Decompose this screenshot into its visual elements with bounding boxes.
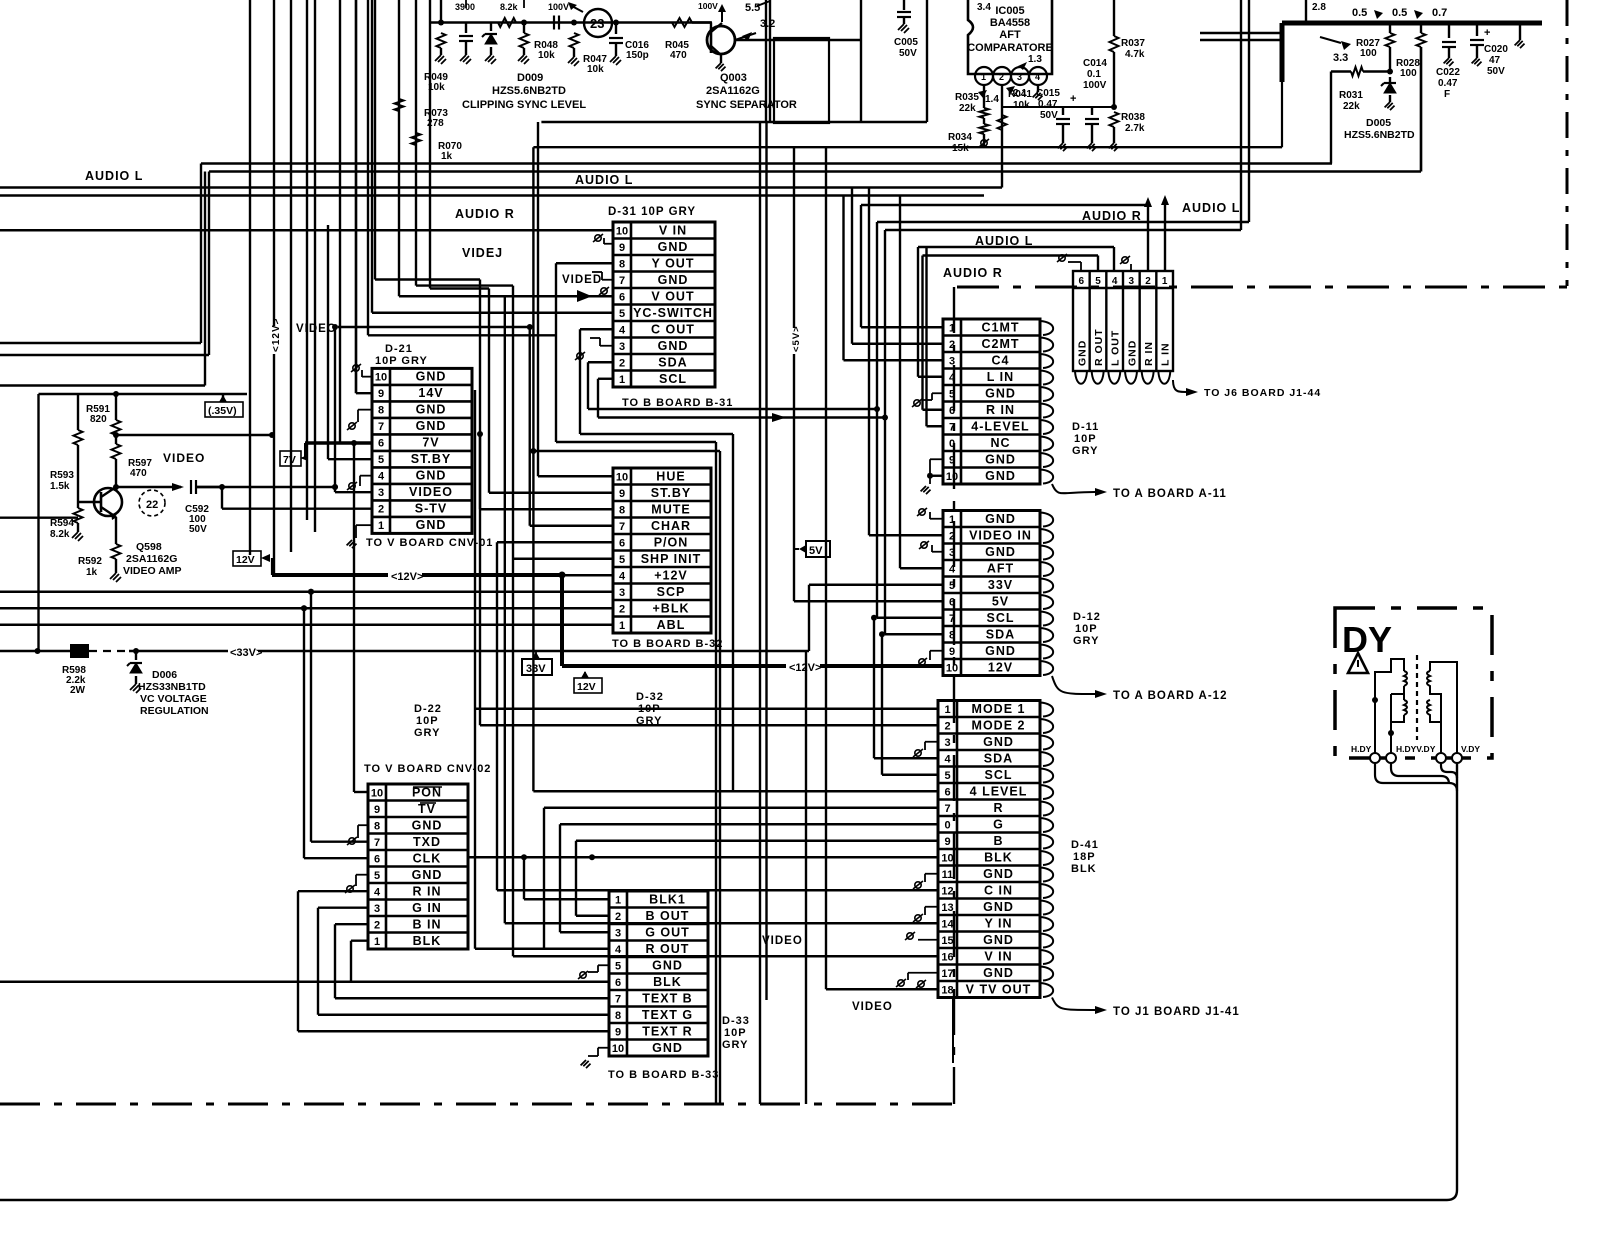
- wire D22 pin3 feed: [318, 907, 368, 909]
- wire corner x201: [200, 164, 202, 344]
- svg-text:6: 6: [949, 405, 955, 417]
- DY terminal 4: [1452, 753, 1462, 763]
- wire vertical x=922.5: [921, 256, 923, 410]
- resistor R070: [412, 133, 421, 145]
- connector D-21 table: [372, 368, 472, 533]
- svg-text:GND: GND: [658, 240, 689, 254]
- svg-text:V OUT: V OUT: [651, 289, 694, 303]
- svg-text:1: 1: [981, 72, 986, 82]
- op-amp IC005 body: [968, 0, 1052, 74]
- svg-text:TEXT G: TEXT G: [642, 1008, 693, 1022]
- wire 33V: [129, 650, 809, 652]
- wire vertical x=529.75: [529, 327, 531, 526]
- svg-text:GND: GND: [416, 419, 447, 433]
- pin IC005-3: [1011, 67, 1029, 85]
- svg-text:TO A BOARD A-12: TO A BOARD A-12: [1113, 690, 1227, 702]
- svg-text:SCL: SCL: [985, 768, 1013, 782]
- svg-text:5V: 5V: [809, 545, 823, 557]
- svg-text:4: 4: [949, 372, 956, 384]
- svg-text:R IN: R IN: [986, 403, 1015, 417]
- svg-text:SCL: SCL: [987, 611, 1015, 625]
- wire D41 pin5 feed: [882, 774, 938, 776]
- svg-text:4: 4: [615, 944, 622, 956]
- wire COUT run: [580, 433, 733, 435]
- wire vertical x=399 from top: [398, 0, 400, 296]
- svg-text:ABL: ABL: [657, 618, 686, 632]
- svg-text:1.3: 1.3: [1028, 54, 1042, 65]
- svg-text:C OUT: C OUT: [651, 322, 695, 336]
- svg-text:0: 0: [944, 819, 950, 831]
- wire D33 pin4 feed: [475, 948, 609, 950]
- resistor R038: [1110, 112, 1119, 127]
- svg-text:D-33: D-33: [722, 1015, 750, 1027]
- svg-text:2: 2: [619, 357, 625, 369]
- resistor R073: [395, 99, 404, 111]
- svg-text:14V: 14V: [418, 386, 443, 400]
- ground D22 pin5: [356, 874, 368, 876]
- svg-text:AUDIO R: AUDIO R: [1082, 209, 1142, 223]
- ground D41 pin17: [908, 972, 938, 974]
- net label 12V under: [574, 678, 602, 693]
- svg-text:13: 13: [941, 902, 953, 914]
- wire vertical x=480: [479, 280, 481, 510]
- svg-text:0.47: 0.47: [1438, 78, 1458, 89]
- svg-text:0: 0: [949, 438, 955, 450]
- capacitor C015: [1062, 107, 1064, 115]
- svg-text:8: 8: [374, 820, 380, 832]
- net label 33V inline: [228, 644, 258, 658]
- svg-text:GRY: GRY: [1073, 635, 1099, 647]
- resistor R035/R034 chain: [983, 85, 985, 108]
- connector D-12 hooks: [1040, 513, 1053, 676]
- svg-text:(.35V): (.35V): [208, 405, 237, 417]
- svg-text:2: 2: [944, 720, 950, 732]
- svg-text:22k: 22k: [1343, 101, 1360, 112]
- svg-text:GND: GND: [983, 735, 1014, 749]
- svg-text:8.2k: 8.2k: [50, 529, 70, 540]
- svg-text:SCL: SCL: [659, 372, 687, 386]
- wire bus2 right end: [1420, 47, 1422, 172]
- svg-text:10: 10: [946, 662, 958, 674]
- wire D41 pin1 feed: [475, 708, 938, 710]
- svg-text:1.5k: 1.5k: [50, 481, 70, 492]
- svg-text:TO V BOARD CNV-02: TO V BOARD CNV-02: [364, 763, 491, 775]
- svg-text:S-TV: S-TV: [415, 502, 447, 516]
- svg-text:278: 278: [427, 118, 444, 129]
- wire bus y222: [877, 221, 1249, 223]
- svg-text:GND: GND: [412, 868, 443, 882]
- svg-text:1k: 1k: [86, 567, 98, 578]
- svg-text:9: 9: [944, 836, 950, 848]
- wire bus222 right end: [1248, 0, 1250, 222]
- svg-text:VC VOLTAGE: VC VOLTAGE: [140, 693, 207, 705]
- svg-text:8: 8: [619, 504, 625, 516]
- svg-text:TXD: TXD: [413, 835, 441, 849]
- arrow AUDIO L up: [1164, 203, 1166, 271]
- svg-text:50V: 50V: [899, 48, 917, 59]
- svg-text:9: 9: [949, 646, 955, 658]
- svg-text:GRY: GRY: [1072, 445, 1098, 457]
- wire vertical x=533.4: [532, 147, 534, 791]
- wire D32 pin7 feed: [530, 525, 613, 527]
- wire D-32 HUE feed: [538, 475, 613, 477]
- svg-text:5: 5: [949, 580, 955, 592]
- wire vertical x=766.5: [765, 122, 767, 1000]
- svg-text:SHP INIT: SHP INIT: [641, 552, 702, 566]
- wire vertical x826: [825, 147, 827, 989]
- svg-text:SYNC SEPARATOR: SYNC SEPARATOR: [696, 99, 797, 111]
- ground B-45 pin6: [1080, 262, 1082, 271]
- wire D11 pin10 feed: [930, 475, 943, 477]
- svg-text:GND: GND: [652, 1041, 683, 1055]
- overline TV: [420, 802, 436, 804]
- svg-text:4: 4: [619, 324, 626, 336]
- ground D31 pin9: [604, 243, 613, 245]
- svg-text:22: 22: [146, 499, 158, 511]
- svg-text:7V: 7V: [422, 436, 439, 450]
- wire D31 pin4 feed: [580, 328, 613, 330]
- svg-text:18P: 18P: [1073, 851, 1096, 863]
- wire D41 pin6 feed: [533, 790, 938, 792]
- svg-text:D-41: D-41: [1071, 839, 1099, 851]
- svg-text:9: 9: [619, 242, 625, 254]
- resistor R037: [1113, 0, 1115, 36]
- svg-text:TV: TV: [418, 802, 436, 816]
- wire pins junction: [1002, 106, 1114, 108]
- svg-text:R IN: R IN: [413, 884, 442, 898]
- svg-text:R IN: R IN: [1143, 341, 1155, 366]
- svg-text:MODE 1: MODE 1: [972, 702, 1026, 716]
- svg-text:Q598: Q598: [136, 541, 162, 553]
- wire D41 pin18 feed: [826, 988, 938, 990]
- svg-text:50V: 50V: [1040, 110, 1058, 121]
- connector D-11 table: [943, 319, 1040, 484]
- DY terminal 1: [1370, 753, 1380, 763]
- svg-text:5: 5: [949, 388, 955, 400]
- svg-text:8.2k: 8.2k: [500, 2, 519, 12]
- wire vertical x=489: [488, 289, 490, 493]
- svg-text:TEXT B: TEXT B: [642, 991, 692, 1005]
- wire VIDEO net: [334, 327, 336, 492]
- wire VIDEO-IN vertical: [868, 188, 870, 536]
- svg-text:GND: GND: [985, 512, 1016, 526]
- svg-text:33V: 33V: [526, 663, 546, 675]
- svg-text:6: 6: [949, 596, 955, 608]
- svg-text:DY: DY: [1342, 619, 1392, 660]
- svg-text:B: B: [993, 834, 1003, 848]
- wire D41 pin16 feed: [513, 955, 938, 957]
- svg-text:TO B BOARD B-31: TO B BOARD B-31: [622, 397, 733, 409]
- wire D32 pin2 feed: [0, 607, 613, 609]
- ground D12 pin9: [930, 650, 943, 652]
- wire D31 pin6 arrow: [399, 295, 613, 297]
- svg-text:4: 4: [619, 570, 626, 582]
- wire D41 pin14 feed: [505, 922, 938, 924]
- svg-text:7: 7: [619, 275, 625, 287]
- wire 5V line: [793, 147, 795, 601]
- wire to A board A-12: [1052, 676, 1095, 694]
- wire D32 pin5 feed: [513, 558, 613, 560]
- svg-text:CLIPPING SYNC LEVEL: CLIPPING SYNC LEVEL: [462, 99, 586, 111]
- connector B-45 hooks: [1075, 371, 1170, 384]
- svg-text:10P: 10P: [1074, 433, 1097, 445]
- component R598: [0, 650, 70, 652]
- svg-text:AUDIO L: AUDIO L: [85, 169, 143, 183]
- svg-text:3.3: 3.3: [1333, 52, 1348, 64]
- wire top node D009: [430, 21, 712, 23]
- svg-text:R034: R034: [948, 132, 972, 143]
- svg-text:2.8: 2.8: [1312, 2, 1326, 13]
- chain line right vertical: [1566, 0, 1569, 286]
- svg-text:HZS5.6NB2TD: HZS5.6NB2TD: [492, 85, 566, 97]
- DY terminal 3: [1436, 753, 1446, 763]
- DY block border: [1335, 608, 1492, 758]
- wire H335 link: [368, 334, 556, 336]
- svg-text:P/ON: P/ON: [654, 535, 689, 549]
- svg-text:GND: GND: [416, 518, 447, 532]
- svg-text:6: 6: [615, 977, 621, 989]
- wire vertical x=416 from top: [415, 0, 417, 286]
- wire D12 pin4 feed: [900, 567, 943, 569]
- connector D-31 table: [613, 222, 715, 387]
- svg-text:5V: 5V: [992, 594, 1009, 608]
- wire to J1 board J1-41: [1052, 998, 1095, 1011]
- svg-text:9: 9: [615, 1026, 621, 1038]
- DY yoke H coil2: [1391, 694, 1407, 722]
- svg-text:3: 3: [619, 587, 625, 599]
- svg-text:4.7k: 4.7k: [1125, 49, 1145, 60]
- connector D-11 hooks: [1040, 321, 1053, 484]
- svg-text:3900: 3900: [455, 2, 475, 12]
- svg-text:ST.BY: ST.BY: [651, 486, 691, 500]
- svg-text:6: 6: [378, 438, 384, 450]
- wire D33 pin1 feed: [524, 898, 609, 900]
- svg-text:+BLK: +BLK: [653, 601, 690, 615]
- wire D11 pin3 feed: [844, 359, 944, 361]
- svg-text:9: 9: [619, 488, 625, 500]
- svg-text:CHAR: CHAR: [651, 519, 691, 533]
- svg-text:VIDEO: VIDEO: [163, 451, 205, 465]
- svg-text:3: 3: [374, 903, 380, 915]
- svg-text:4: 4: [1035, 72, 1040, 82]
- svg-text:1: 1: [1162, 276, 1168, 287]
- svg-text:D-12: D-12: [1073, 611, 1101, 623]
- svg-text:C IN: C IN: [984, 883, 1013, 897]
- wire vertical x=315 from top: [314, 0, 316, 532]
- svg-text:4-LEVEL: 4-LEVEL: [971, 419, 1029, 433]
- svg-text:33V: 33V: [988, 578, 1013, 592]
- zener D006: [135, 651, 137, 660]
- svg-text:GND: GND: [985, 452, 1016, 466]
- svg-text:V IN: V IN: [659, 223, 687, 237]
- wire corner x209: [208, 172, 210, 356]
- net label (.35V): [222, 394, 224, 402]
- svg-text:5: 5: [615, 960, 621, 972]
- svg-text:3: 3: [1017, 72, 1022, 82]
- wire D22 pin4 feed: [298, 890, 368, 892]
- wire vertical x=372 from top: [371, 0, 373, 313]
- ground far right: [1519, 23, 1521, 40]
- capacitor C010: [465, 23, 467, 34]
- svg-text:D009: D009: [517, 72, 543, 84]
- wire IC005 pin2 down: [1001, 85, 1003, 188]
- capacitor C016: [613, 20, 619, 26]
- wire corner x533: [533, 146, 1282, 148]
- wire D31 pin1 feed: [598, 378, 613, 380]
- svg-text:8: 8: [949, 629, 955, 641]
- svg-text:10: 10: [375, 372, 387, 384]
- svg-text:SDA: SDA: [658, 355, 687, 369]
- svg-text:BLK: BLK: [984, 850, 1013, 864]
- svg-text:GND: GND: [983, 867, 1014, 881]
- svg-text:+12V: +12V: [654, 568, 688, 582]
- svg-text:7: 7: [944, 803, 950, 815]
- wire top right entry: [1200, 32, 1282, 34]
- svg-text:L IN: L IN: [1160, 342, 1172, 366]
- svg-text:8: 8: [615, 1010, 621, 1022]
- svg-text:V.DY: V.DY: [1461, 744, 1480, 754]
- svg-text:R037: R037: [1121, 38, 1145, 49]
- svg-text:7: 7: [619, 521, 625, 533]
- svg-text:3: 3: [949, 547, 955, 559]
- svg-text:GND: GND: [985, 469, 1016, 483]
- svg-text:YC-SWITCH: YC-SWITCH: [633, 306, 713, 320]
- wire emitter bus: [0, 517, 78, 519]
- svg-text:5: 5: [374, 870, 380, 882]
- svg-text:AFT: AFT: [999, 29, 1021, 41]
- svg-text:10: 10: [371, 787, 383, 799]
- zener D005: [1387, 69, 1393, 75]
- ground IC005-4: [1037, 85, 1039, 92]
- svg-text:GND: GND: [985, 545, 1016, 559]
- svg-text:+: +: [1484, 27, 1490, 39]
- svg-text:7: 7: [374, 837, 380, 849]
- ground D33 pin10: [598, 1047, 609, 1049]
- ground D41 pin11: [925, 873, 938, 875]
- svg-text:470: 470: [670, 50, 687, 61]
- svg-text:C014: C014: [1083, 58, 1107, 69]
- svg-text:0.1: 0.1: [1087, 69, 1101, 80]
- svg-text:820: 820: [90, 414, 107, 425]
- wire corner x205: [204, 172, 206, 386]
- svg-text:7: 7: [949, 421, 955, 433]
- svg-text:TEXT R: TEXT R: [642, 1024, 692, 1038]
- svg-text:15: 15: [941, 935, 953, 947]
- wire box2: [860, 0, 862, 122]
- wire D41 pin8 feed: [560, 823, 938, 825]
- wire DY H1: [1375, 763, 1457, 791]
- svg-text:B OUT: B OUT: [646, 909, 690, 923]
- svg-text:10: 10: [616, 471, 628, 483]
- svg-text:D005: D005: [1366, 117, 1391, 129]
- svg-text:HZS33NB1TD: HZS33NB1TD: [138, 681, 206, 693]
- wire D31 pin2 feed: [588, 361, 613, 363]
- wire 12V vertical upper: [273, 354, 275, 575]
- svg-text:GND: GND: [416, 403, 447, 417]
- wire vertical x=441 from top: [440, 0, 442, 23]
- svg-text:H.DY: H.DY: [1351, 744, 1372, 754]
- ground D31 pin7: [602, 279, 613, 281]
- ground D21 pin10: [362, 376, 372, 378]
- svg-text:4: 4: [374, 886, 381, 898]
- svg-text:VIDEO IN: VIDEO IN: [969, 528, 1032, 542]
- wire B-45 pin5 up: [1097, 256, 1099, 272]
- svg-text:6: 6: [944, 786, 950, 798]
- wire vertical x=760: [759, 122, 761, 1104]
- resistor R028: [1420, 23, 1422, 33]
- wire 7V bold: [305, 441, 372, 445]
- chain line top horizontal: [957, 286, 1567, 289]
- svg-text:100V: 100V: [548, 2, 569, 12]
- svg-text:2: 2: [999, 72, 1004, 82]
- ground D41 pin3: [925, 741, 938, 743]
- svg-text:GND: GND: [416, 469, 447, 483]
- wire vertical x=885: [884, 230, 886, 634]
- wire D12 pin7 feed: [877, 617, 943, 619]
- svg-text:10P: 10P: [1075, 623, 1098, 635]
- resistor R049: [438, 20, 444, 26]
- svg-text:1: 1: [949, 322, 955, 334]
- net label 12V boxed: [233, 551, 261, 566]
- svg-text:GND: GND: [412, 818, 443, 832]
- svg-text:GND: GND: [1076, 340, 1088, 366]
- svg-text:AUDIO L: AUDIO L: [1182, 201, 1240, 215]
- wire D33 pin2 feed: [576, 915, 609, 917]
- svg-text:1: 1: [619, 620, 625, 632]
- svg-text:1: 1: [619, 374, 625, 386]
- resistor R047: [571, 20, 577, 26]
- wire vertical x=852: [851, 188, 853, 344]
- wire bus y230: [885, 229, 1241, 231]
- svg-text:0.7: 0.7: [1432, 7, 1447, 19]
- svg-text:IC005: IC005: [995, 5, 1024, 17]
- wire below D41: [952, 998, 954, 1064]
- wire DY H2: [1391, 763, 1449, 784]
- ground D21 pin1: [356, 524, 372, 526]
- svg-text:D-11: D-11: [1072, 421, 1099, 433]
- svg-text:<33V>: <33V>: [230, 647, 262, 659]
- wire stub x1310: [1305, 0, 1307, 23]
- wire D11 pin2 feed: [852, 343, 943, 345]
- svg-text:100V: 100V: [698, 1, 718, 11]
- wire vertical x=307 from top: [306, 0, 308, 520]
- svg-text:100: 100: [1360, 48, 1377, 59]
- wire vertical x=843.5: [842, 196, 844, 361]
- wire D32 pin8 feed: [480, 508, 613, 510]
- waveform ref 22: [139, 490, 165, 516]
- wire PON vertical: [353, 443, 355, 792]
- svg-text:2: 2: [615, 911, 621, 923]
- svg-text:ST.BY: ST.BY: [411, 452, 451, 466]
- wire vertical x=538: [537, 122, 539, 476]
- svg-text:6: 6: [1079, 276, 1085, 287]
- ground D41 pin13: [925, 906, 938, 908]
- svg-text:2W: 2W: [70, 685, 86, 696]
- capacitor C005: [903, 0, 905, 10]
- svg-text:2SA1162G: 2SA1162G: [126, 553, 177, 565]
- wire D22 pin1 feed: [351, 940, 368, 942]
- svg-text:GND: GND: [416, 370, 447, 384]
- ground D22 pin8: [358, 824, 368, 826]
- wire bus AUDIO-R y255: [923, 254, 1099, 256]
- svg-text:10k: 10k: [538, 50, 555, 61]
- wire D22 pin7 feed: [310, 592, 312, 842]
- wire 12V feed amp: [116, 434, 272, 436]
- wire vertical x=918: [917, 247, 919, 377]
- svg-text:GND: GND: [983, 933, 1014, 947]
- wire SDA run: [588, 408, 877, 410]
- wire video out branch: [196, 486, 335, 488]
